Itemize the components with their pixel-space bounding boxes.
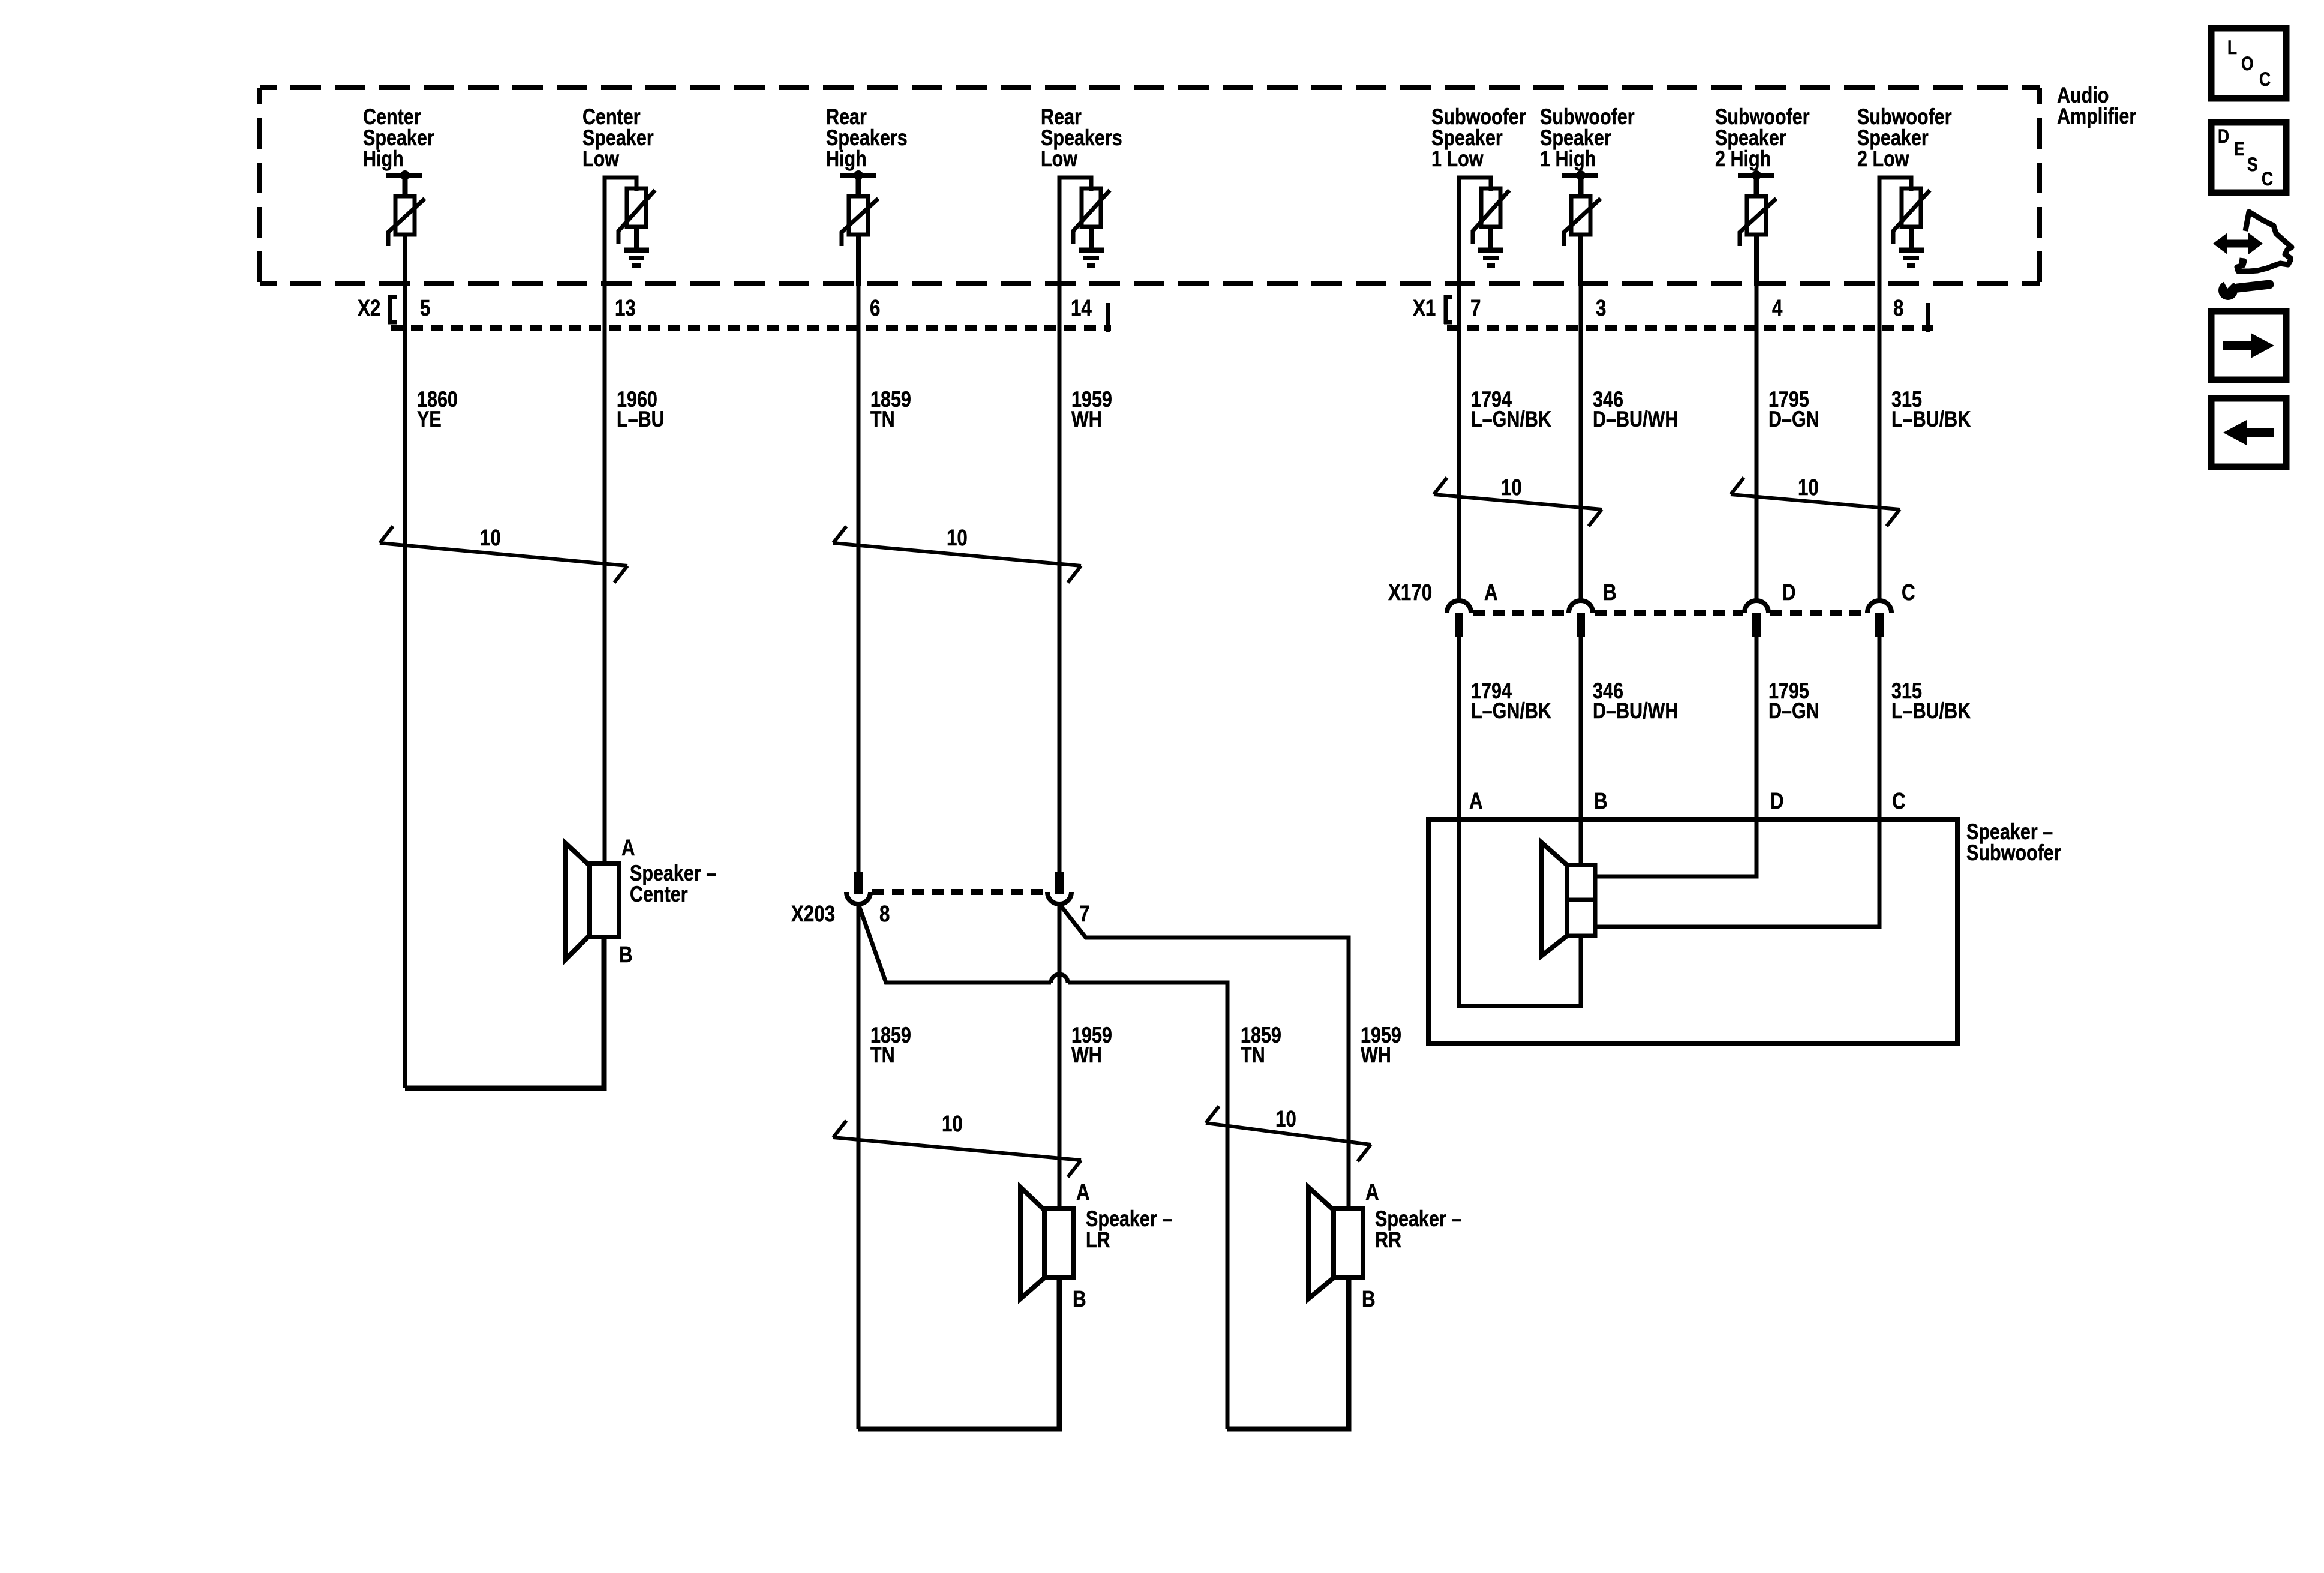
svg-text:LR: LR (1086, 1227, 1110, 1252)
svg-text:WH: WH (1071, 407, 1102, 431)
svg-text:C: C (2259, 69, 2271, 91)
svg-text:YE: YE (417, 407, 442, 431)
svg-text:14: 14 (1071, 295, 1092, 321)
wire stub to ground (1089, 227, 1094, 250)
wire speaker center loop (405, 937, 604, 1088)
X170 terminal C socket (1867, 601, 1891, 613)
Subwoofer Speaker 2 High output terminal bar (1738, 173, 1774, 178)
resistor R5 adjust arrow (1473, 190, 1509, 244)
wire 1959 WH (1058, 284, 1062, 872)
node dot R3 (854, 170, 863, 180)
X170 terminal B socket (1569, 601, 1593, 613)
subwoofer voice coils (1567, 865, 1595, 936)
svg-text:L–BU/BK: L–BU/BK (1891, 698, 1971, 723)
svg-text:Low: Low (582, 146, 620, 171)
gauge 10 callout (RR wires) (1206, 1123, 1371, 1145)
svg-text:10: 10 (1798, 475, 1819, 500)
wire 346 D-BU/WH (below X170) (1579, 637, 1583, 865)
gauge 10 callout (center speaker wires) (380, 543, 627, 566)
X170 terminal A socket (1447, 601, 1471, 613)
speaker center horn (566, 843, 590, 959)
wire speaker LR loop (858, 1278, 1059, 1429)
svg-text:E: E (2234, 139, 2245, 160)
connector X1 line (1447, 325, 1933, 331)
wire 1859 TN to LR (857, 903, 861, 1429)
svg-text:D–GN: D–GN (1768, 407, 1819, 431)
svg-text:L–BU/BK: L–BU/BK (1891, 407, 1971, 431)
gauge 10 callout (subwoofer 1 wires) (1434, 494, 1602, 509)
Subwoofer Speaker 1 Low wire jog (1459, 178, 1491, 288)
X170 terminal C pin (1875, 613, 1884, 637)
svg-text:C: C (1892, 788, 1906, 814)
variable resistor R5 (1481, 188, 1500, 227)
resistor R3 adjust arrow (842, 199, 878, 246)
subwoofer internal wire D (1595, 819, 1756, 876)
svg-text:C: C (2262, 169, 2273, 190)
speaker LR driver (1044, 1208, 1074, 1278)
svg-text:X170: X170 (1388, 580, 1432, 605)
svg-text:X203: X203 (791, 901, 835, 927)
svg-text:A: A (1469, 788, 1483, 814)
icon wrench (2218, 281, 2238, 300)
svg-text:4: 4 (1772, 295, 1783, 321)
connector X1 left bracket (1444, 295, 1448, 324)
speaker center driver (590, 864, 619, 937)
svg-text:D: D (1770, 788, 1784, 814)
svg-text:1 High: 1 High (1540, 146, 1596, 171)
X170 terminal A pin (1455, 613, 1463, 637)
speaker RR horn (1308, 1187, 1334, 1299)
svg-text:2 High: 2 High (1715, 146, 1771, 171)
svg-text:RR: RR (1375, 1227, 1401, 1252)
wire stub (403, 176, 408, 198)
wire (1754, 235, 1759, 286)
svg-text:5: 5 (420, 295, 430, 321)
svg-text:TN: TN (1241, 1043, 1265, 1067)
icon back arrow (2244, 428, 2274, 437)
wire (403, 235, 407, 286)
svg-text:2 Low: 2 Low (1857, 146, 1909, 171)
svg-text:10: 10 (1275, 1106, 1296, 1132)
variable resistor R8 (1902, 188, 1921, 227)
node dot R7 (1752, 170, 1761, 180)
node dot R6 (1576, 170, 1586, 180)
svg-text:D: D (2218, 126, 2229, 148)
Rear Speakers Low wire jog (1059, 178, 1091, 288)
wire stub to ground (634, 227, 639, 250)
gauge 10 callout (LR wires) (833, 1137, 1081, 1160)
svg-text:TN: TN (870, 407, 895, 431)
svg-text:B: B (619, 942, 633, 968)
svg-text:C: C (1902, 580, 1915, 605)
svg-text:D: D (1782, 580, 1796, 605)
svg-text:Center: Center (630, 882, 688, 906)
Subwoofer Speaker 2 Low wire jog (1879, 178, 1911, 288)
resistor R7 adjust arrow (1740, 199, 1776, 246)
wire speaker RR loop (1227, 1278, 1349, 1429)
svg-text:A: A (1365, 1179, 1379, 1205)
icon part outline (2237, 212, 2292, 271)
wire 1859 TN branch to RR (858, 904, 1051, 983)
wire stub to ground (1488, 227, 1493, 250)
X203 line (872, 889, 1046, 895)
speaker LR horn (1020, 1187, 1044, 1299)
X170 terminal D pin (1752, 613, 1761, 637)
svg-text:X1: X1 (1413, 295, 1436, 321)
X203 terminal 8 socket (846, 892, 870, 904)
wire 1795 D-GN (below X170) (1755, 637, 1759, 876)
svg-text:8: 8 (1893, 295, 1903, 321)
svg-text:B: B (1073, 1286, 1086, 1312)
svg-text:L: L (2227, 37, 2237, 59)
svg-text:WH: WH (1361, 1043, 1391, 1067)
svg-text:10: 10 (942, 1111, 963, 1137)
ground symbol R5 (1478, 248, 1503, 253)
connector X2 left bracket (388, 295, 392, 324)
wire 315 L-BU/BK (below X170) (1878, 637, 1882, 927)
svg-text:B: B (1362, 1286, 1376, 1312)
svg-text:O: O (2241, 53, 2254, 75)
svg-text:B: B (1594, 788, 1608, 814)
svg-text:X2: X2 (358, 295, 380, 321)
icon wrench double arrow (2225, 240, 2251, 248)
connector X2 right bracket (1106, 303, 1110, 332)
resistor R4 adjust arrow (1073, 190, 1110, 244)
svg-text:A: A (1484, 580, 1498, 605)
icon LOC box (2211, 28, 2286, 98)
svg-text:13: 13 (615, 295, 636, 321)
wire 1794 L-GN/BK (1457, 284, 1461, 599)
wire stub (856, 176, 861, 198)
svg-text:High: High (363, 146, 404, 171)
speaker subwoofer box (1428, 819, 1957, 1043)
Center Speaker Low wire jog (605, 178, 636, 288)
node dot R1 (400, 170, 410, 180)
wire 346 D-BU/WH (1579, 284, 1583, 599)
wire stub to ground (1909, 227, 1914, 250)
wire 1959 WH branch to RR A (1059, 904, 1349, 1208)
ground symbol R4 (1079, 248, 1104, 253)
variable resistor R3 (849, 196, 868, 235)
resistor R1 adjust arrow (388, 199, 425, 246)
variable resistor R2 (627, 188, 646, 227)
svg-text:A: A (1076, 1179, 1090, 1205)
svg-text:S: S (2247, 154, 2258, 176)
svg-text:L–GN/BK: L–GN/BK (1471, 698, 1551, 723)
connector X2 line (391, 325, 1111, 331)
svg-text:D–GN: D–GN (1768, 698, 1819, 723)
svg-text:L–BU: L–BU (617, 407, 665, 431)
gauge 10 callout (subwoofer 2 wires) (1731, 494, 1900, 509)
gauge 10 callout (rear speaker wires) (833, 543, 1081, 566)
svg-text:7: 7 (1079, 901, 1089, 927)
X170 terminal B pin (1577, 613, 1585, 637)
svg-text:8: 8 (879, 901, 890, 927)
wire 1960 L-BU (603, 284, 607, 864)
svg-text:High: High (826, 146, 867, 171)
Center Speaker High output terminal bar (386, 173, 422, 178)
variable resistor R1 (395, 196, 415, 235)
X170 terminal D socket (1744, 601, 1768, 613)
wire 1794 L-GN/BK (below X170) (1457, 637, 1461, 1006)
Subwoofer Speaker 1 High output terminal bar (1562, 173, 1598, 178)
icon forward arrow (2223, 341, 2253, 350)
svg-text:10: 10 (480, 525, 501, 551)
resistor R8 adjust arrow (1893, 190, 1930, 244)
icon back arrow box (2211, 398, 2286, 467)
svg-text:TN: TN (870, 1043, 895, 1067)
svg-text:D–BU/WH: D–BU/WH (1593, 407, 1678, 431)
svg-text:1 Low: 1 Low (1431, 146, 1484, 171)
wire (1578, 235, 1583, 286)
svg-text:10: 10 (947, 525, 968, 551)
svg-text:Low: Low (1041, 146, 1078, 171)
wire 1959 WH to LR A (1058, 903, 1062, 1208)
audio amplifier dashed box (260, 85, 2040, 90)
svg-text:L–GN/BK: L–GN/BK (1471, 407, 1551, 431)
svg-text:7: 7 (1470, 295, 1481, 321)
svg-text:3: 3 (1596, 295, 1606, 321)
subwoofer internal wire A (1459, 819, 1581, 1006)
svg-text:A: A (621, 835, 635, 861)
connector X170 line (1473, 610, 1567, 616)
wire 1795 D-GN (1755, 284, 1759, 599)
variable resistor R7 (1747, 196, 1766, 235)
svg-text:WH: WH (1071, 1043, 1102, 1067)
svg-text:10: 10 (1501, 475, 1522, 500)
subwoofer internal wire C (1595, 819, 1879, 927)
X203 terminal 7 socket (1047, 892, 1071, 904)
X203 terminal 7 pin (1055, 872, 1064, 894)
X203 terminal 8 pin (854, 872, 863, 894)
connector X1 right bracket (1926, 303, 1930, 332)
icon forward arrow box (2211, 311, 2286, 380)
variable resistor R4 (1082, 188, 1101, 227)
icon DESC box (2211, 122, 2286, 193)
svg-text:Subwoofer: Subwoofer (1966, 840, 2061, 865)
ground symbol R2 (624, 248, 649, 253)
wire (856, 235, 861, 286)
resistor R6 adjust arrow (1564, 199, 1601, 246)
wire 1860 YE (403, 284, 407, 1088)
svg-text:B: B (1603, 580, 1617, 605)
svg-text:6: 6 (870, 295, 880, 321)
resistor R2 adjust arrow (618, 190, 655, 244)
wire 315 L-BU/BK (1878, 284, 1882, 599)
subwoofer horn (1542, 843, 1567, 956)
svg-text:Amplifier: Amplifier (2057, 104, 2136, 128)
variable resistor R6 (1571, 196, 1590, 235)
wire stub (1578, 176, 1584, 198)
speaker RR driver (1334, 1208, 1363, 1278)
svg-text:D–BU/WH: D–BU/WH (1593, 698, 1678, 723)
wire 1859 TN (857, 284, 861, 872)
ground symbol R8 (1899, 248, 1924, 253)
wire stub (1754, 176, 1759, 198)
Rear Speakers High output terminal bar (840, 173, 876, 178)
